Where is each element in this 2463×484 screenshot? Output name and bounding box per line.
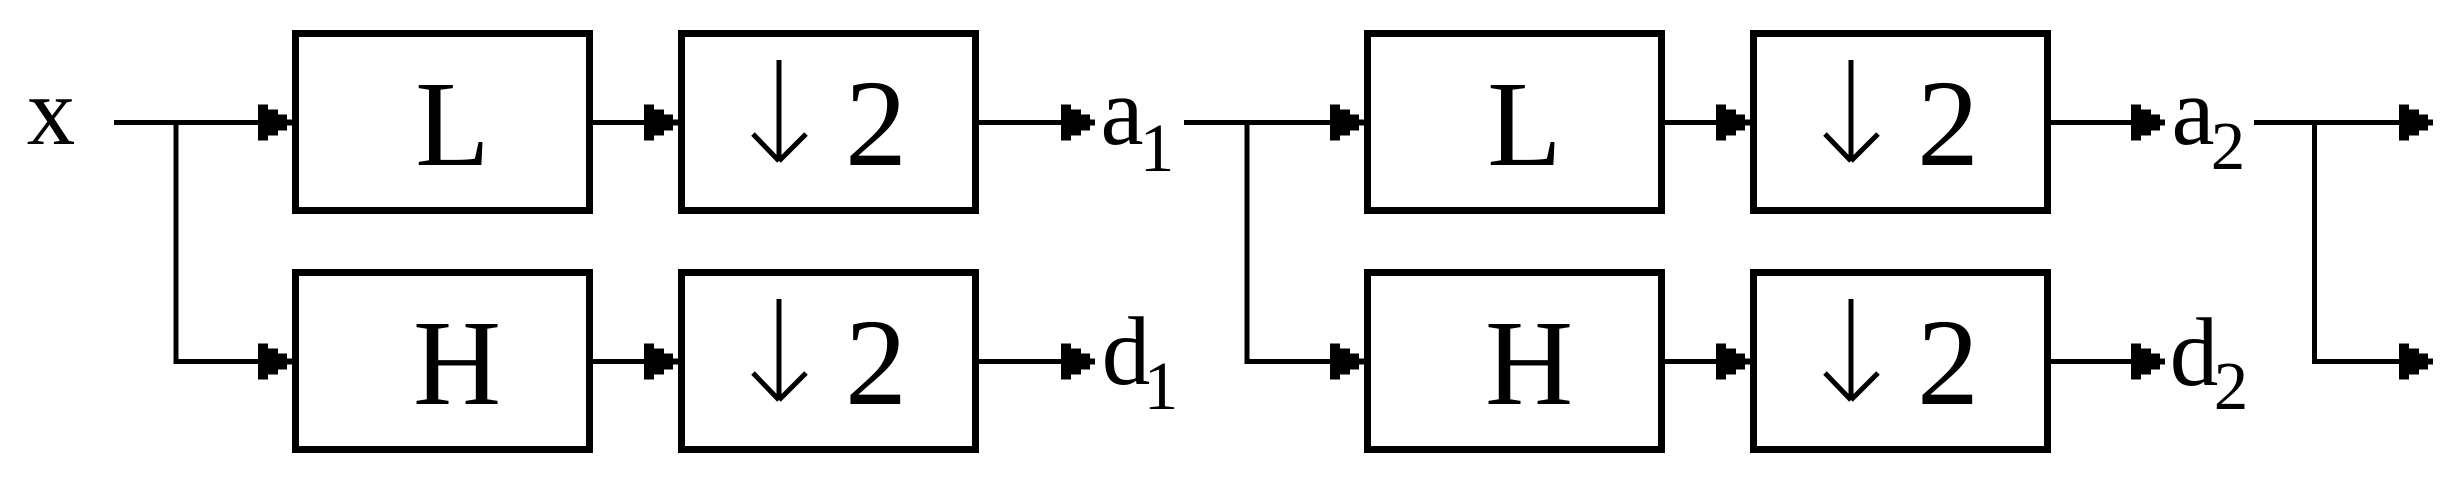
arrow to d1 (1061, 344, 1095, 380)
svg-text:x: x (27, 58, 76, 165)
filter box H2 (1368, 273, 1662, 450)
wire L1 to downsampler D1 (592, 120, 656, 125)
arrow into H1 (258, 344, 292, 380)
svg-text:d: d (2170, 299, 2219, 406)
arrow into H2 (1330, 344, 1364, 380)
filter box H1 (296, 273, 590, 450)
svg-text:H: H (1485, 296, 1573, 431)
final top output arrow (2399, 105, 2433, 141)
wire junction to H2 (1245, 359, 1343, 364)
wire D1 to a1 (978, 120, 1068, 125)
svg-text:H: H (413, 296, 501, 431)
arrow into D1 (644, 105, 678, 141)
downsampler box D1b (682, 273, 976, 450)
svg-text:2: 2 (1917, 55, 1979, 192)
filter box L1 (296, 34, 590, 211)
svg-text:1: 1 (1140, 110, 1175, 186)
downsampler box D1 (682, 34, 976, 211)
final bottom output arrow (2399, 344, 2433, 380)
wire input x to junction (114, 120, 270, 125)
wire a1 to stage 2 junction (1184, 120, 1342, 125)
wire D1b to d1 (978, 359, 1068, 364)
wire H2 to downsampler D2b (1664, 359, 1728, 364)
arrow into L2 (1330, 105, 1364, 141)
down arrow glyph D1b (777, 299, 782, 399)
svg-text:1: 1 (1144, 348, 1179, 424)
arrow into D1b (644, 344, 678, 380)
down arrow glyph D2b (1849, 299, 1854, 399)
wire output junction to bottom right (2312, 359, 2408, 364)
wire a2 output to the right (2254, 120, 2408, 125)
svg-text:a: a (2171, 58, 2214, 165)
svg-text:2: 2 (2211, 108, 2246, 184)
down arrow glyph D2 (1849, 60, 1854, 160)
junction branch wire down (stage 2) (1245, 120, 1250, 364)
arrow into D2b (1716, 344, 1750, 380)
downsampler box D2b (1754, 273, 2048, 450)
svg-text:L: L (1487, 57, 1562, 192)
arrow to a1 (1061, 105, 1095, 141)
downsampler box D2 (1754, 34, 2048, 211)
down arrow glyph D1 (777, 60, 782, 160)
wire L2 to downsampler D2 (1664, 120, 1728, 125)
junction branch wire down (stage 1) (174, 120, 179, 364)
svg-text:2: 2 (845, 294, 907, 431)
svg-text:2: 2 (845, 55, 907, 192)
arrow to d2 (2131, 344, 2165, 380)
svg-text:2: 2 (2214, 348, 2249, 424)
arrow into D2 (1716, 105, 1750, 141)
arrow into L1 (258, 105, 292, 141)
svg-text:2: 2 (1917, 294, 1979, 431)
wire D2b to d2 (2050, 359, 2138, 364)
filter box L2 (1368, 34, 1662, 211)
wire H1 to downsampler D1b (592, 359, 656, 364)
svg-text:L: L (415, 57, 490, 192)
wire junction to H1 (174, 359, 271, 364)
junction branch wire down (output) (2312, 120, 2317, 364)
svg-text:a: a (1100, 58, 1143, 165)
arrow to a2 (2131, 105, 2165, 141)
wire D2 to a2 (2050, 120, 2138, 125)
